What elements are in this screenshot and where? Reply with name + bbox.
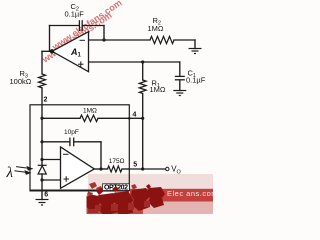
svg-text:175Ω: 175Ω — [109, 158, 125, 165]
svg-text:10pF: 10pF — [64, 129, 79, 136]
svg-text:0.1µF: 0.1µF — [186, 76, 206, 85]
svg-text:A: A — [70, 47, 78, 57]
svg-text:6: 6 — [44, 192, 48, 199]
svg-text:1MΩ: 1MΩ — [150, 85, 166, 94]
svg-text:O: O — [177, 170, 182, 176]
svg-text:Elec ans.com: Elec ans.com — [167, 189, 213, 198]
svg-text:1MΩ: 1MΩ — [83, 108, 97, 115]
svg-text:5: 5 — [133, 161, 137, 168]
svg-text:1MΩ: 1MΩ — [148, 24, 164, 33]
svg-text:0.1µF: 0.1µF — [65, 10, 85, 19]
svg-text:4: 4 — [133, 112, 137, 119]
svg-text:100kΩ: 100kΩ — [10, 77, 32, 86]
svg-text:2: 2 — [44, 97, 48, 104]
svg-text:λ: λ — [6, 165, 14, 181]
